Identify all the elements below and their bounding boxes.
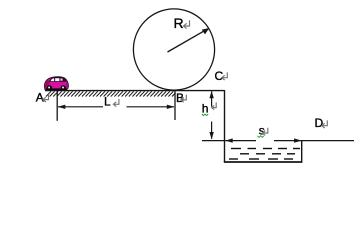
svg-text:C: C xyxy=(215,69,224,83)
circle (wheel) radius R xyxy=(133,9,214,90)
cliff vertical wall below C (left wall of pool) xyxy=(224,90,226,162)
ground line A to cliff edge C xyxy=(45,90,225,92)
return mark after C xyxy=(222,72,228,80)
h dimension vertical arrows xyxy=(209,91,213,139)
hatching below ground A-B xyxy=(46,91,176,96)
return mark after D xyxy=(322,120,327,128)
return mark after h xyxy=(212,102,217,109)
svg-text:h: h xyxy=(202,101,209,115)
dimension line L with arrows xyxy=(58,105,175,109)
h bottom reference line (left of pool) xyxy=(202,140,225,142)
green spellcheck squiggle under h xyxy=(202,114,208,116)
car on ground near A xyxy=(44,77,68,91)
s dimension line with arrows (water surface) xyxy=(225,138,301,142)
return mark after A xyxy=(43,94,49,102)
return mark after s xyxy=(262,128,267,136)
dimension extension tick at A xyxy=(56,91,58,121)
return mark after B xyxy=(181,95,187,103)
green spellcheck squiggle under s xyxy=(258,136,264,138)
pool bottom xyxy=(224,161,302,163)
radius arrow inside circle xyxy=(168,28,210,52)
return mark after L xyxy=(113,99,119,107)
pool right wall xyxy=(301,140,303,163)
dimension extension tick at B xyxy=(174,91,176,121)
svg-text:s: s xyxy=(259,124,265,138)
lower ground line right of pool to D xyxy=(302,140,354,142)
water dashes row 3 xyxy=(229,158,293,160)
svg-text:A: A xyxy=(36,91,44,105)
return mark after R xyxy=(183,20,189,28)
svg-text:D: D xyxy=(315,116,324,130)
water dashes row 2 xyxy=(240,153,295,155)
svg-text:L: L xyxy=(104,95,111,109)
water dashes row 1 xyxy=(231,148,300,150)
svg-text:R: R xyxy=(174,15,184,31)
